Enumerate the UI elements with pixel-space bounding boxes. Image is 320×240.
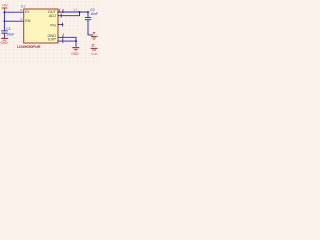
no-connect bar PG	[62, 23, 64, 27]
svg-text:C1: C1	[6, 27, 10, 31]
ground for C2	[91, 32, 97, 39]
svg-text:8: 8	[20, 8, 22, 12]
power port +5V	[2, 3, 9, 12]
svg-text:ADJ: ADJ	[49, 14, 56, 18]
wire EN net	[4, 20, 23, 22]
junction IN	[3, 11, 5, 13]
svg-text:10uF: 10uF	[6, 33, 14, 37]
ground symbol bottom right	[91, 45, 99, 56]
wire IN net	[4, 11, 23, 13]
sheet background	[0, 0, 100, 64]
pin marker OUT red	[59, 9, 61, 13]
no-connect bar GND	[62, 35, 64, 39]
svg-text:5: 5	[20, 17, 22, 21]
svg-text:PG: PG	[50, 23, 56, 27]
wire OUT net	[58, 11, 89, 13]
regulator U1 body	[21, 5, 58, 44]
svg-text:LD39050PUR: LD39050PUR	[17, 44, 41, 49]
capacitor C1	[1, 27, 14, 38]
capacitor C2	[85, 8, 98, 35]
svg-text:IN: IN	[25, 10, 29, 14]
junction OUT/C2	[87, 11, 89, 13]
svg-text:+5V: +5V	[2, 3, 9, 7]
svg-text:C2: C2	[90, 8, 94, 12]
wire GND net	[58, 37, 77, 47]
pin number above GND wire	[62, 34, 64, 36]
grid	[0, 0, 100, 64]
svg-text:GND: GND	[91, 52, 99, 56]
wire +5V rail vertical	[3, 12, 5, 31]
svg-text:1 1: 1 1	[73, 7, 78, 11]
ground for U1	[71, 48, 79, 56]
wire ADJ net joining OUT	[58, 12, 80, 16]
no-connect bar EXP	[62, 39, 64, 43]
svg-text:10nF: 10nF	[90, 12, 98, 16]
svg-text:GND: GND	[0, 41, 8, 45]
svg-text:U1: U1	[21, 5, 25, 9]
junction EN	[4, 20, 6, 22]
no-connect bar ADJ	[60, 14, 62, 18]
junction EXP/GND	[75, 40, 77, 42]
svg-text:EXP: EXP	[48, 38, 56, 42]
svg-text:GND: GND	[71, 52, 79, 56]
svg-text:EN: EN	[25, 19, 31, 23]
wire PG stub	[58, 24, 64, 26]
ground for C1	[0, 38, 8, 45]
junction ADJ/OUT	[79, 11, 81, 13]
no-connect bar OUT	[62, 9, 64, 13]
wire EXP net	[58, 40, 77, 42]
